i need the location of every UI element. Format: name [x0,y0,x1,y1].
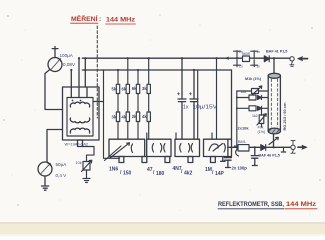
meter M1 100uA [48,47,62,72]
svg-text:1n: 1n [257,65,261,69]
wire squiggle right of Q4 [235,146,239,156]
svg-text:4k: 4k [142,114,147,119]
bus wire second [82,69,231,71]
svg-text:1k2: 1k2 [252,114,258,118]
svg-text:1n: 1n [239,65,243,69]
wire bus left drop [84,58,86,87]
coupler pins up [71,58,87,98]
ground below M2 [42,176,49,190]
svg-text:(1%): (1%) [258,130,266,134]
resistor column R2 [126,58,129,139]
svg-text:10k: 10k [76,161,82,165]
resistor 10k row C with diode [237,106,268,111]
svg-text:2x10k: 2x10k [238,126,250,131]
label 1M/14P [205,167,225,177]
svg-text:BAF 41 P1,5: BAF 41 P1,5 [266,50,287,54]
label 1N6/150 [109,167,132,177]
resistor column R4 [147,58,150,139]
capacitor C1 10u [177,58,186,139]
svg-text:10µ/15V: 10µ/15V [193,105,218,111]
dashed measurement line [96,26,98,118]
svg-text:2k: 2k [132,114,137,119]
svg-text:MĚŘENÍ: MĚŘENÍ [71,15,98,23]
coupler coil bottom [70,128,89,133]
connector J2 [291,141,295,154]
transistor box Q4 [204,139,232,156]
svg-text:6k: 6k [122,87,127,92]
svg-text:1ko: 1ko [241,90,247,94]
svg-text:1M: 1M [205,167,212,173]
paper specks [3,15,320,206]
bus wire top [82,57,290,59]
trimmer pot 10k [82,147,95,183]
resistor BM1 [238,145,249,151]
svg-text:BM1: BM1 [238,140,246,144]
transistor box Q2 [147,139,171,156]
junction dots bottom [236,97,275,149]
label 47/180 [147,167,165,177]
bottom title [218,202,317,209]
svg-text:REFLEKTROMETR, SSB,: REFLEKTROMETR, SSB, [218,202,284,208]
svg-text:3k: 3k [142,86,147,91]
coupler coil middle [70,118,89,123]
svg-text:/: / [120,170,122,176]
label 1x 10u/15V [183,105,218,111]
resistor column R1 [116,70,119,139]
labels 1n at C4 [257,50,261,69]
meter M2 50uA [38,162,52,176]
bottom chain wire [228,146,291,148]
transistor box Q1 [105,139,145,160]
svg-text::: : [99,16,101,23]
svg-text:47: 47 [147,167,153,173]
coupler outer box [63,87,100,140]
capacitor bottom middle [251,147,258,165]
svg-text:2x 100p: 2x 100p [232,166,248,171]
resistor value labels [112,86,148,120]
wire meter M1 to coupler [45,70,63,110]
wire bus2 pin to Q3 [197,70,199,139]
title MERENI 144 MHz [71,15,136,24]
svg-text:0,4 V: 0,4 V [56,173,68,178]
arrow out of J2 [298,145,307,149]
label 50uA / 0,4V [56,162,68,178]
trimmer 1k0 row A [237,86,268,95]
svg-text:5k: 5k [112,87,117,92]
scan noise [12,25,316,216]
wire top chain to coax [273,58,275,73]
svg-text:/: / [212,170,214,176]
resistor column R3 [136,70,139,139]
top stubs of transistor boxes [147,133,212,139]
paper bottom edge strip [0,222,325,236]
svg-text:M1k (1%): M1k (1%) [245,77,262,81]
svg-text:/: / [181,169,183,175]
left rail of detector [236,91,238,147]
svg-text:180: 180 [156,171,165,177]
capacitor C2 10u [189,70,198,139]
wire bus1 pin to Q4 [216,58,218,139]
coupler bottom tab [78,140,83,147]
svg-text:560R: 560R [242,52,251,56]
wire coupler to Q1 [93,70,120,158]
diode D2 [261,145,266,151]
wire bus2 right corner down [231,70,233,139]
svg-text:BAF 46 P1,5: BAF 46 P1,5 [259,154,280,158]
svg-text:4k2: 4k2 [184,171,193,177]
junction dots [70,57,275,71]
resistor 560R [243,56,250,62]
coupler coil top [70,102,89,107]
svg-text:144 MHz: 144 MHz [106,17,135,24]
label 47k (1%) [258,126,266,134]
bottom tab pins of transistor boxes [119,157,225,163]
svg-text:1N6: 1N6 [109,167,118,173]
capacitor bottom left [224,139,231,168]
feedthrough capacitor C4 [251,51,258,67]
svg-text:0,08V: 0,08V [63,62,76,67]
tick after D2 [281,147,285,152]
labels 1n at C3 [239,50,243,69]
wire coax bottom to chain [273,134,275,147]
svg-text:150: 150 [123,171,132,177]
svg-text:50µA: 50µA [56,162,68,167]
diode D1 [264,56,269,62]
resistor 10k row B with diode [237,95,268,100]
arrow marker on bus [225,57,230,60]
feedthrough capacitor C3 [234,51,241,67]
trimmer arrow on coax wire [269,137,278,144]
svg-text:1x: 1x [183,105,189,111]
svg-text:/: / [153,170,155,176]
arrow into J1 [298,56,308,60]
trimmer RT1 [257,110,266,127]
svg-text:6k: 6k [132,86,137,91]
svg-text:RG-213 / 60 cm: RG-213 / 60 cm [282,102,287,130]
label 4N7/4k2 [173,166,193,177]
svg-text:14P: 14P [215,171,225,177]
transistor box Q3 [175,139,200,156]
coupler inner box [67,98,93,137]
svg-text:144 MHz: 144 MHz [286,202,316,208]
label 100uA / 0,08V [60,53,76,67]
svg-text:3k: 3k [112,115,117,120]
svg-text:4k: 4k [122,115,127,120]
svg-text:100µA: 100µA [60,53,74,58]
svg-text:1n: 1n [257,50,261,54]
coax line W1 [268,73,280,134]
wire meter M2 to coupler [47,130,63,163]
svg-text:W=19AT-CA2: W=19AT-CA2 [65,142,89,147]
connector J1 [290,57,294,67]
